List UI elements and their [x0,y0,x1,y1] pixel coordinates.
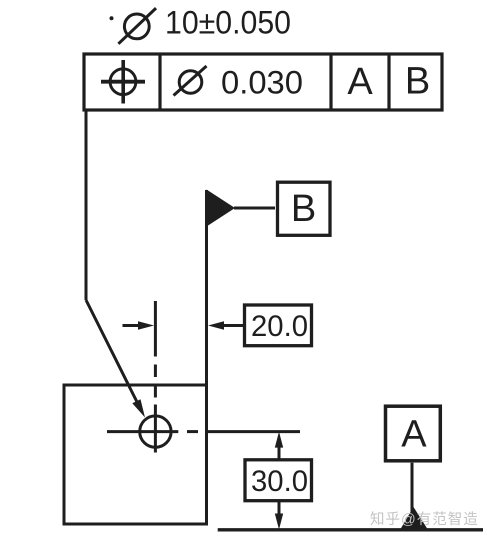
dimension 30.0 upper arrowhead [275,432,283,448]
datum B leader [234,207,275,210]
datum A box [386,406,441,461]
leader arrowhead at hole [132,399,145,417]
FCF divider 3 [387,54,390,110]
svg-text:A: A [401,413,427,455]
FCF divider 2 [329,54,332,110]
datum A stem [411,463,414,512]
hole circle [140,416,171,447]
leader line vertical from FCF [85,110,88,300]
svg-text:30.0: 30.0 [251,465,308,498]
svg-text:A: A [347,61,373,103]
datum B edge extension line [205,190,208,385]
hole vertical centerline [154,301,157,453]
svg-text:10±0.050: 10±0.050 [165,5,291,41]
FCF divider 1 [158,54,161,110]
svg-text:20.0: 20.0 [251,310,308,343]
part outline square [64,385,207,524]
feature control frame outline [84,54,442,110]
datum A surface line [218,528,483,531]
dimension 20.0 right arrowhead [208,321,224,329]
dimension 20.0 left arrowhead [138,321,154,329]
dimension 30.0 upper arrow line [278,445,281,460]
datum B triangle [207,190,236,227]
svg-text:知乎@有范智造: 知乎@有范智造 [370,511,479,528]
dimension 20.0 left arrow line [123,324,141,327]
dimension 30.0 box [245,460,312,501]
svg-text:0.030: 0.030 [221,65,303,101]
diameter symbol of note [118,8,156,44]
position symbol [101,60,145,104]
diameter symbol in FCF [174,66,207,96]
dimension 30.0 lower arrowhead [275,514,283,530]
svg-text:B: B [405,61,430,103]
note leader dot [110,16,114,20]
leader line diagonal to hole [86,300,138,404]
dimension 20.0 right arrow line [222,324,245,327]
datum A triangle [401,507,428,529]
dimension 30.0 lower arrow line [278,501,281,515]
datum B box [278,182,331,235]
hole horizontal centerline [107,430,300,433]
svg-text:B: B [291,188,316,230]
dimension 20.0 box [245,305,312,346]
